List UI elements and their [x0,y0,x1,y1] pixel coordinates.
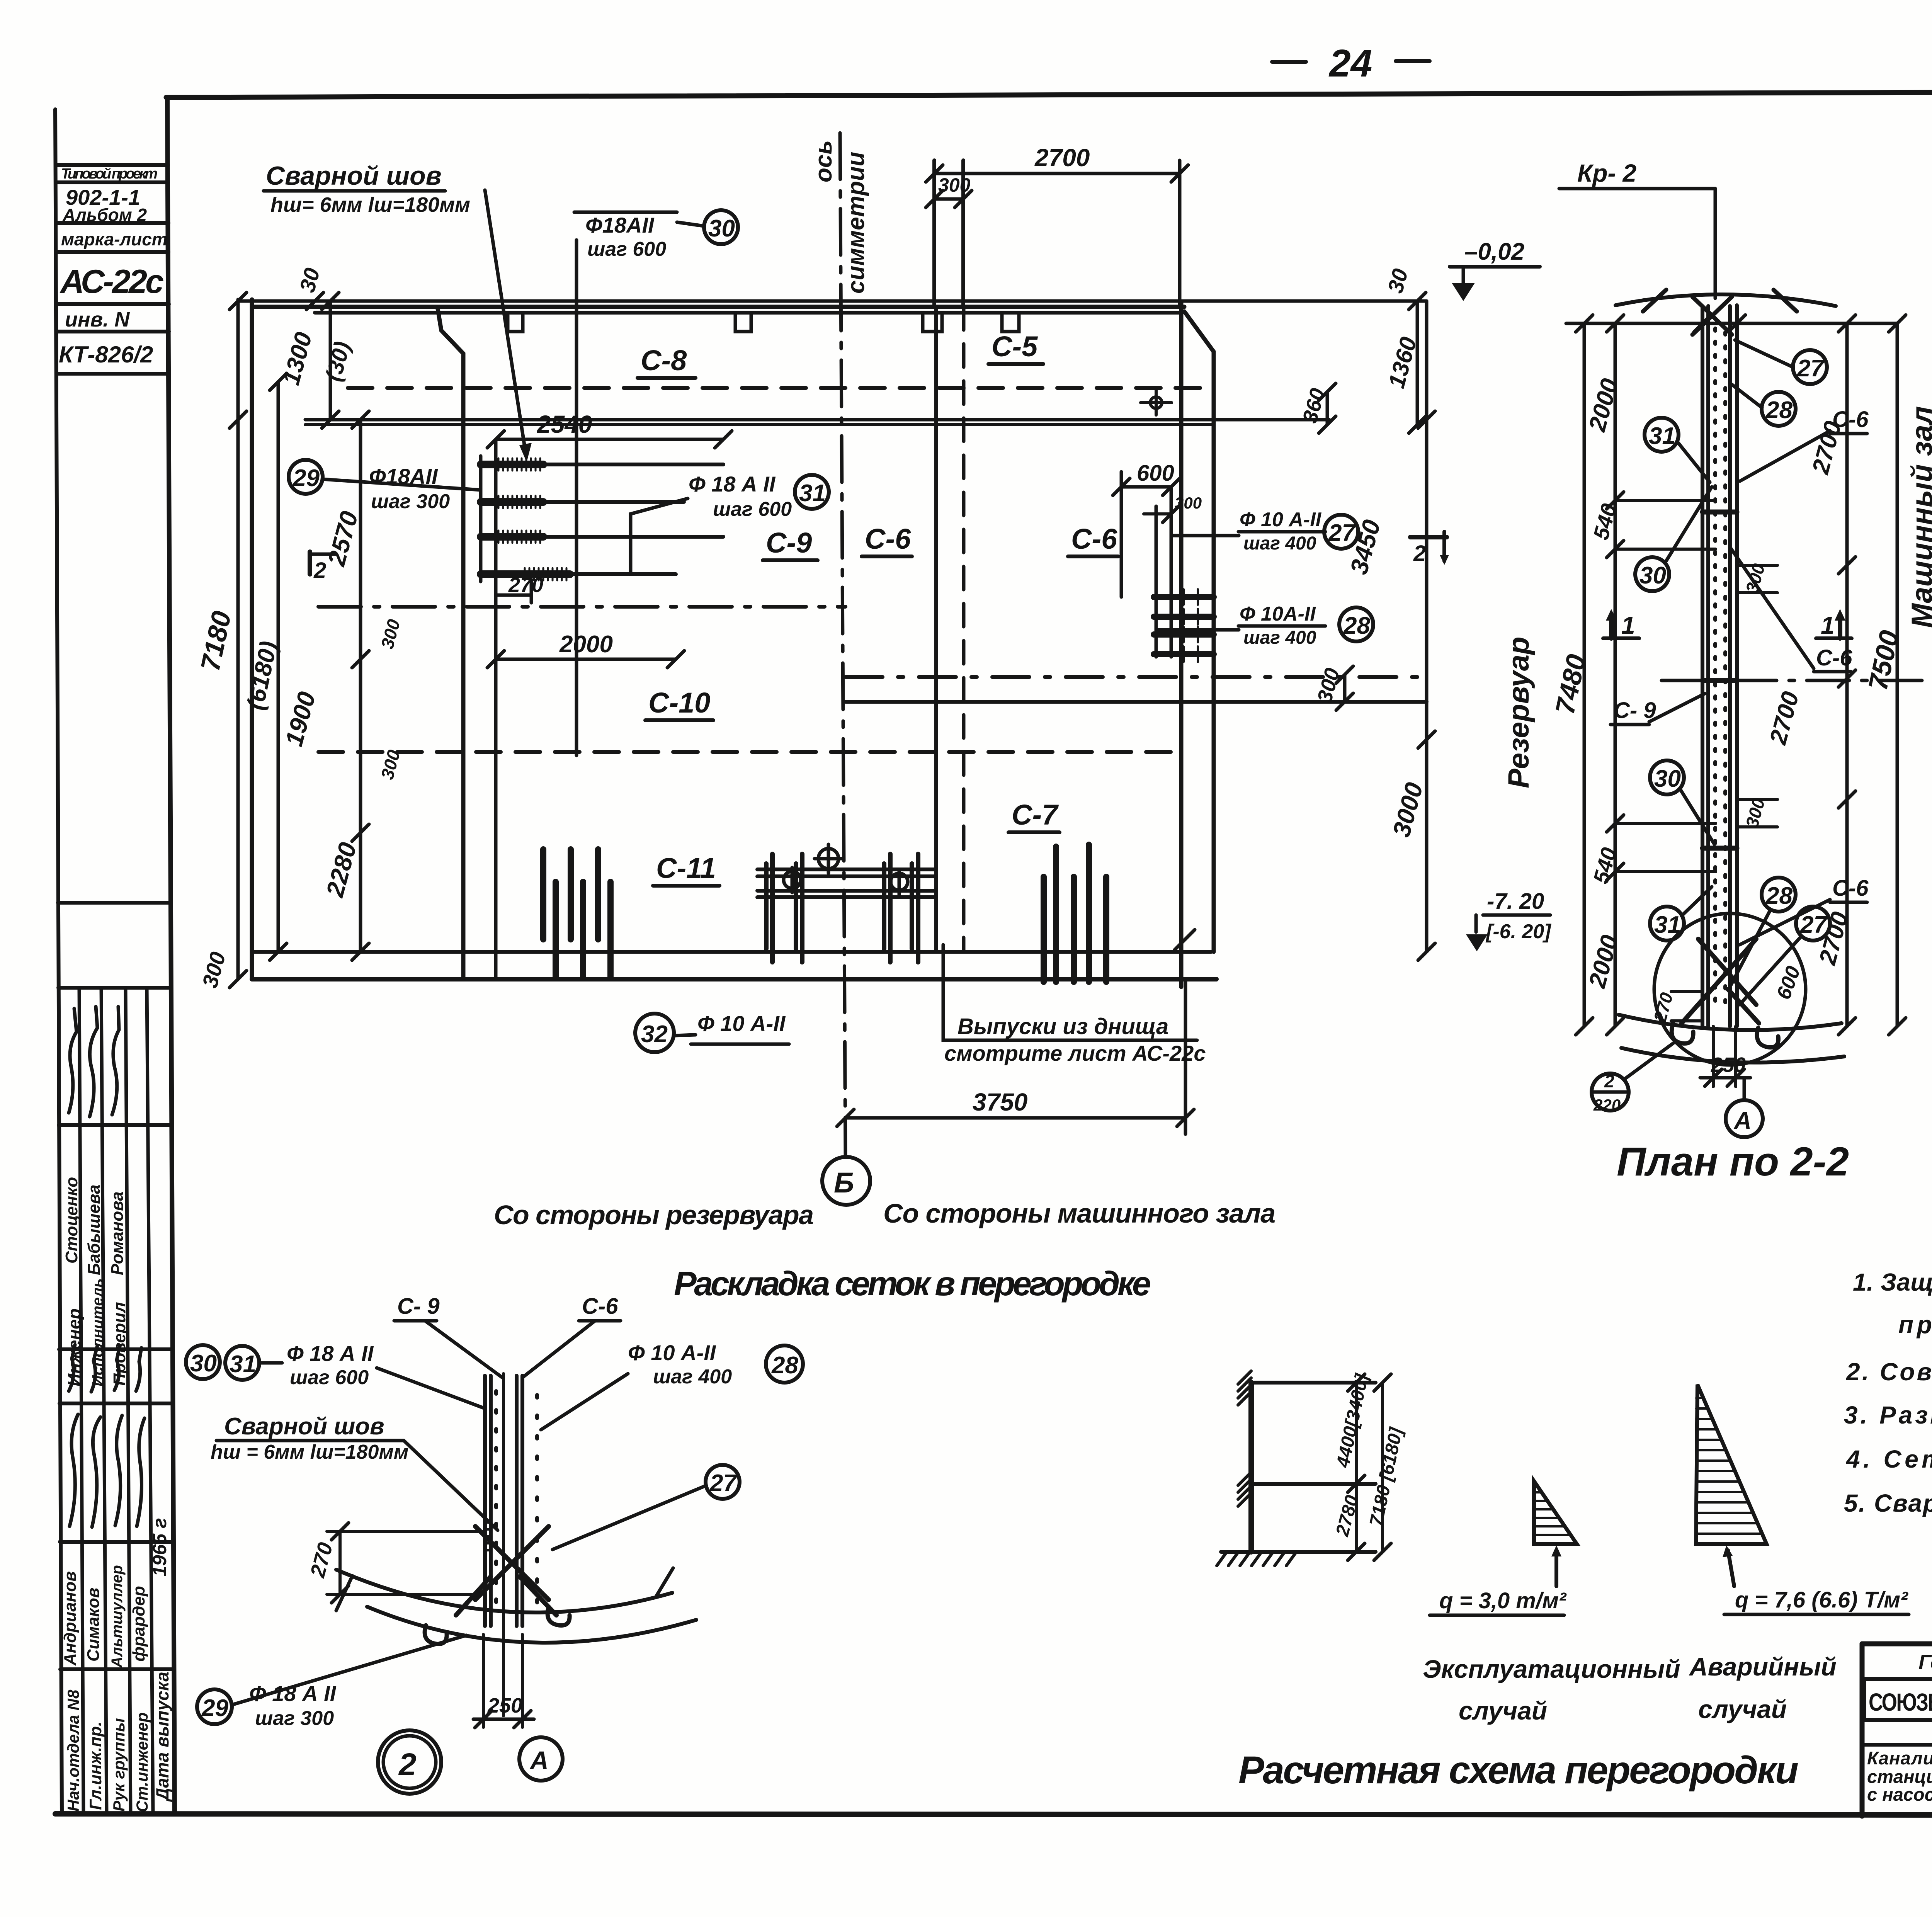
svg-text:27: 27 [709,1470,737,1497]
svg-text:С-10: С-10 [648,687,710,719]
soyuzvodokanalproekt stencil box [1864,1679,1932,1720]
C-9 label [394,1294,502,1378]
circle 31 [225,1346,282,1380]
svg-text:Ф 18 А II: Ф 18 А II [249,1681,337,1706]
leader circle27 [1173,534,1239,538]
circle B axis [822,1157,870,1205]
plan bottom inner line [252,950,1211,954]
svg-text:Стоценко: Стоценко [62,1177,81,1264]
leader circle31 [631,498,688,574]
svg-text:шаг 400: шаг 400 [1243,628,1316,648]
stirrup hanger circles [784,844,908,895]
strip outer left border [55,109,62,1814]
svg-text:250: 250 [1711,1053,1746,1077]
plan top wall inner line [315,311,1181,315]
svg-text:2. Совместно с данным смо: 2. Совместно с данным смотрите лист АС-2… [1846,1358,1932,1386]
svg-text:2: 2 [313,558,326,583]
bottom X cross [456,1526,556,1615]
svg-text:Ф 10 А-II: Ф 10 А-II [1240,509,1322,531]
vypuski text [943,945,1206,1065]
dim bracket 1300 [329,301,332,420]
C-6 dim 600 [1121,485,1171,489]
300 bracket upper [1737,561,1777,595]
svg-text:Сварной шов: Сварной шов [266,161,442,191]
strip rotated names bottom [61,1518,172,1812]
rebar bar 29/3 [481,533,543,541]
svg-text:А: А [529,1746,549,1774]
svg-text:Со стороны резервуара: Со стороны резервуара [494,1200,814,1230]
frame top bar [1251,1381,1376,1385]
weld hatch [486,1522,491,1550]
leader svarnoy shov [485,190,526,452]
dim line 300 top [934,197,963,201]
svg-text:С-9: С-9 [766,527,812,559]
B axis dashdot [1662,679,1932,682]
circle 28 [766,1345,803,1383]
svg-text:Дата выпуска: Дата выпуска [152,1672,172,1802]
svg-text:300: 300 [938,174,971,196]
floor arc 2 [367,1607,696,1643]
svg-text:случай: случай [1459,1696,1547,1725]
svg-text:шаг 600: шаг 600 [290,1366,369,1389]
circle 30 [186,1345,220,1379]
svg-text:С-6: С-6 [582,1294,618,1319]
svg-text:ось: ось [810,140,837,182]
svg-text:Рук группы: Рук группы [110,1718,128,1812]
svg-text:Расчетная схема перегородк: Расчетная схема перегородки [1238,1749,1799,1792]
svg-text:3750: 3750 [973,1088,1027,1116]
svg-text:31: 31 [799,480,826,507]
frame wall vertical [1248,1383,1254,1552]
leader circle28 [1156,628,1239,632]
svg-text:Романова: Романова [108,1191,127,1275]
dim line 2000 [496,658,676,661]
svg-text:Инженер: Инженер [64,1308,84,1386]
C-7 comb short bars [1044,877,1106,982]
C-6 rebar bars [1154,597,1214,654]
wall notch 4 [1002,315,1019,332]
svg-text:С-6: С-6 [1832,407,1869,432]
dim line 2540 [496,438,723,441]
svg-text:Ф18АII: Ф18АII [585,213,655,237]
circle 28 [1339,607,1373,641]
level -0.02 [1450,238,1540,301]
svg-text:Сварной шов: Сварной шов [224,1413,384,1440]
svg-text:Резервуар: Резервуар [1502,637,1535,788]
wall top cap arc [1616,294,1836,306]
svg-text:смотрите лист АС-22с: смотрите лист АС-22с [944,1041,1206,1065]
svg-text:С-6: С-6 [1832,876,1869,901]
section mark 2 right [1410,532,1449,566]
C-11 comb tall bars [543,849,598,939]
fraction circle 2/220 [1592,1043,1673,1114]
wall stub above top-wall left line [932,160,936,307]
svg-text:АС-22с: АС-22с [60,263,164,300]
C-6 detail vertical [1120,472,1123,597]
svg-text:2540: 2540 [537,410,592,438]
svg-text:28: 28 [1765,883,1793,909]
svg-text:Ф 18 А II: Ф 18 А II [287,1341,374,1366]
dim line 2700 top [934,172,1180,175]
plan right band dashed top [845,675,1427,679]
svg-text:Ф 10А-II: Ф 10А-II [1240,603,1316,625]
540 bracket top lines [1615,500,1716,549]
dim ext 3750 right [1184,979,1187,1134]
svg-text:Ф 10 А-II: Ф 10 А-II [697,1011,786,1036]
dim bracket 1360 [1416,301,1419,425]
wall line R1 [1728,306,1732,1026]
circle 30 top [1635,487,1712,591]
svg-text:600: 600 [1137,461,1174,486]
svg-text:32: 32 [641,1021,668,1048]
rebar bars left tie [479,456,483,582]
axis of symmetry dashdot [840,133,845,1156]
svg-text:С-5: С-5 [992,330,1038,362]
svg-text:24: 24 [1328,42,1372,85]
support hatch mid [1238,1472,1251,1506]
small triangle arrow [1554,1550,1558,1586]
svg-text:С-7: С-7 [1012,799,1059,831]
leader shag600 vertical [575,240,578,755]
hook right [548,1607,570,1625]
svg-text:28: 28 [771,1352,798,1379]
svarnoy shov underline [216,1439,404,1442]
svg-text:инв. N: инв. N [65,308,130,331]
node circle 2 [378,1730,441,1794]
svg-text:2000: 2000 [559,631,613,658]
svg-text:31: 31 [230,1351,256,1378]
load triangle small [1534,1481,1577,1544]
solid vertical grid line [934,307,938,951]
svg-text:Альбом 2: Альбом 2 [62,205,147,225]
dim 270 bottom [1650,990,1702,1025]
svg-text:с насосами 2¹/г НФ: с насосами 2¹/г НФ [1867,1784,1932,1805]
scheme dim ticks [1348,1374,1391,1560]
svg-text:Симаков: Симаков [84,1588,103,1662]
leader svarnoy arrowhead [519,443,532,462]
dim 250 [473,1635,534,1728]
svg-text:Ф18АII: Ф18АII [369,464,438,488]
KR-2 leader vertical [1714,189,1717,298]
svg-text:С-6: С-6 [1071,523,1117,555]
title block outer top line [1862,1641,1932,1647]
bottom slab arc 2 [1621,1048,1844,1063]
svg-text:220: 220 [1593,1096,1621,1114]
circle 31 top [1645,418,1710,482]
grid label underlines [638,364,1118,886]
circle 32 [635,1014,696,1052]
dim extension vertical 2540 [494,439,498,977]
plan middle band dashdot left [318,605,845,609]
svg-text:30: 30 [190,1350,217,1377]
plan left outer wall [250,299,254,979]
svg-text:28: 28 [1343,612,1370,639]
svg-text:шаг 600: шаг 600 [587,238,666,260]
leader 29 [232,1635,466,1705]
gosstroy box divider [1862,1743,1932,1747]
callout texts [266,161,1322,1036]
plan right band solid [845,700,1427,704]
horizontal dim texts [508,144,1202,1116]
chain left texts [1584,376,1624,991]
svg-text:[-6. 20]: [-6. 20] [1485,920,1551,943]
svg-text:марка-лист: марка-лист [61,229,168,249]
svg-text:5. Сварку производить элек: 5. Сварку производить электродами Э-42 Г… [1844,1489,1932,1517]
plan bottom corner slash [1175,930,1195,950]
wall notch 1 [508,315,523,332]
C-6 label [522,1294,621,1378]
svg-text:Нач.отдела N8: Нач.отдела N8 [64,1689,82,1812]
svg-text:hш= 6мм lш=180мм: hш= 6мм lш=180мм [270,193,470,216]
stirrup assembly rails [757,869,935,897]
label f18 shag300 [249,1681,337,1730]
dim chain right vertical [1425,301,1429,952]
svg-text:Исполнитель: Исполнитель [89,1278,106,1386]
svg-text:28: 28 [1765,397,1793,424]
svg-text:2: 2 [398,1747,417,1782]
circle 28 top [1732,384,1796,426]
plan left wall inner edge with chamfer [438,309,463,979]
rebar dots right [535,1395,539,1604]
C-7 comb tall bars [1056,845,1089,982]
strip rotated names mid [62,1177,129,1386]
wall line R2 [1735,305,1739,1026]
scheme dim texts [1332,1371,1407,1539]
dim line 3750 [845,1116,1185,1120]
svg-text:29: 29 [293,465,320,492]
circle 29 [197,1689,232,1724]
kanalizacionnaya station text [1867,1748,1932,1818]
dim chain vertical left [359,420,362,952]
rebar mat dotted left [1713,328,1717,1009]
grid labels [641,330,1117,884]
leader bracket shag600 [574,211,677,214]
plan 1300-level thin line [305,418,1329,422]
bottom hooks [1672,1023,1778,1047]
rebar dots left [494,1391,498,1604]
svg-text:3. Размеры в скобках даны: 3. Размеры в скобках даны для Нк = 4,0 м… [1844,1401,1932,1429]
side captions [494,1198,1276,1230]
top X brace [1643,290,1797,335]
circle 31 bottom [1650,887,1712,941]
svg-text:30: 30 [1654,765,1681,792]
bottom slab arc 1 [1619,1015,1842,1030]
dim 270 bracket [496,580,531,603]
dashed vertical grid boundary [962,307,966,950]
540 bracket bottom lines [1615,823,1716,872]
C-6 top label [1740,407,1869,481]
support hatch top [1238,1371,1251,1405]
rebar bar 29/4 [481,570,570,578]
top dim line [1566,322,1897,325]
svg-text:Машинный зал: Машинный зал [1906,406,1932,628]
callout underlines [264,191,1325,1044]
C-6 rebar cross ticks [1184,589,1198,662]
svg-text:С- 9: С- 9 [1614,698,1656,723]
svg-text:1: 1 [1821,611,1835,639]
dim chain right [1845,323,1849,1026]
rotated dim texts right [1298,266,1429,840]
svg-text:Госстрой СССР: Госстрой СССР [1918,1651,1932,1674]
C-6 label below 1 [1731,549,1852,672]
C-6 verticals [1156,487,1171,657]
svg-text:Ф 10 А-II: Ф 10 А-II [628,1340,716,1365]
svg-text:q = 3,0 т/м²: q = 3,0 т/м² [1439,1588,1567,1613]
svg-text:29: 29 [201,1695,228,1721]
rotated dim texts left [195,265,404,990]
svarnoy shov text [211,1413,408,1463]
plan top wall line [252,305,1184,309]
dim 270 [306,1523,483,1603]
svg-text:27: 27 [1800,912,1828,938]
wall line L2 [489,1376,493,1626]
A circle [1726,1078,1763,1137]
svg-text:Канализационная насосная: Канализационная насосная [1867,1748,1932,1768]
wall notch 3 [923,315,942,332]
rebar bar 29/1 with comb [481,461,543,468]
svg-text:Эксплуатационный: Эксплуатационный [1423,1655,1680,1683]
wall cross ties [1702,512,1737,848]
load triangle big [1696,1385,1767,1544]
big triangle arrow [1728,1550,1734,1586]
svg-text:27: 27 [1328,520,1356,546]
signature scribbles row1 [69,1007,145,1527]
level -7.20 [1466,889,1551,951]
label f18 shag600 [287,1341,374,1389]
section mark 1 right [1816,609,1852,639]
svg-text:Кр- 2: Кр- 2 [1577,159,1636,187]
circle 31 [795,475,829,509]
detail circle bottom [1654,913,1806,1065]
svg-text:hш = 6мм lш=180мм: hш = 6мм lш=180мм [211,1441,408,1463]
circle 30 bottom [1650,760,1714,844]
plan right wall chamfer [1184,311,1214,952]
svg-text:2: 2 [1413,541,1426,566]
plan second thin line [305,423,1211,426]
svg-text:-7. 20: -7. 20 [1487,889,1544,914]
svg-text:30: 30 [1639,562,1666,589]
svg-text:Типовой проект: Типовой проект [61,166,158,182]
strip box lines top section [56,165,169,374]
svg-text:План по 2-2: План по 2-2 [1617,1139,1849,1184]
svg-text:Гл.инж.пр.: Гл.инж.пр. [86,1721,105,1810]
ground hatch [1217,1552,1296,1566]
stirrup assembly vertical bars [766,854,918,962]
svg-text:Со стороны машинного зала: Со стороны машинного зала [883,1198,1276,1228]
svg-text:Проверил: Проверил [110,1302,129,1386]
svg-text:27: 27 [1797,355,1825,382]
svg-text:1: 1 [1621,611,1635,639]
dim chain left [1614,323,1617,1026]
wall center line [502,1374,505,1716]
frame top border [166,90,1932,97]
svg-text:q = 7,6 (6.6) Т/м²: q = 7,6 (6.6) Т/м² [1735,1587,1908,1613]
A circle [519,1737,563,1781]
C-11 comb short bars [556,882,611,977]
svg-text:Аварийный: Аварийный [1689,1652,1837,1681]
svg-text:С-11: С-11 [656,852,716,884]
leader circle30 [677,222,704,226]
leader f18 [377,1368,485,1408]
dim 250 bottom [1700,1026,1750,1087]
svg-text:Б: Б [834,1167,854,1199]
wall stub above top-wall right line [961,160,965,307]
leader circle29 [322,479,481,490]
C-6 bottom label [1740,876,1869,945]
svg-text:С-6: С-6 [865,523,911,555]
frame bottom border [55,1814,1932,1815]
svg-text:2: 2 [1604,1071,1614,1091]
strip right border [167,98,175,1814]
circle 28 bottom [1730,878,1796,986]
frame mid bar [1251,1482,1376,1486]
strip column lines [79,988,153,1814]
arc right tail [657,1568,673,1595]
dim ticks s22 [1576,315,1906,1035]
svg-text:–0,02: –0,02 [1464,238,1524,265]
circle 27 top [1735,340,1827,384]
plan bottom outer line [252,977,1216,981]
plan top dashed line [348,386,1211,390]
strip texts top [59,166,168,367]
scheme dim line B [1381,1383,1384,1552]
dim line 6180 vertical [277,382,280,952]
dim ext vertical 2700 right [1178,160,1182,307]
dim ticks plan [230,165,1435,1126]
dim bracket 300 right [1343,675,1347,702]
svarnoy leader [404,1441,498,1530]
rebar bar 29/2 [481,498,543,506]
svg-text:случай: случай [1698,1695,1787,1723]
svg-text:270: 270 [508,573,543,597]
circle 29 [289,460,323,494]
dim bracket 360 [1326,392,1329,425]
svg-text:31: 31 [1649,423,1675,449]
circle 27 [1324,515,1358,549]
300 bracket lower [1737,796,1777,830]
svg-text:Раскладка сеток в перегородк: Раскладка сеток в перегородке [674,1264,1151,1303]
svg-text:С-8: С-8 [641,344,687,376]
wall line R1 [515,1376,519,1626]
circle 30 [704,210,738,244]
plan right wall inner edge [1179,302,1184,987]
bottom X cross [1682,939,1759,1023]
rebar comb hatches [498,458,566,580]
svg-text:шаг 400: шаг 400 [1243,533,1316,554]
case captions [1423,1652,1837,1725]
svg-text:Альтшуллер: Альтшуллер [109,1565,126,1668]
svg-text:КТ-826/2: КТ-826/2 [59,342,153,367]
wall notch 2 [735,315,751,332]
svg-text:С-6: С-6 [1816,645,1852,670]
arc left tail [336,1576,352,1611]
KR-2 underline [1559,187,1715,191]
plan middle band dashed bottom [318,750,1184,754]
svg-text:30: 30 [708,215,735,242]
svg-text:симметрии: симметрии [843,152,869,294]
svg-text:С- 9: С- 9 [397,1294,440,1319]
wall line L2 [1706,306,1710,1026]
svg-text:фрардер: фрардер [129,1586,148,1662]
wall line L1 [1701,306,1704,1026]
chain right texts [1765,418,1854,968]
floor arc 1 [336,1570,672,1613]
circle 27 [553,1465,740,1550]
svg-text:2700: 2700 [1034,144,1090,172]
rebar mat dotted right [1723,332,1727,1012]
label f10 shag400 [628,1340,732,1388]
wall line L1 [483,1376,487,1626]
